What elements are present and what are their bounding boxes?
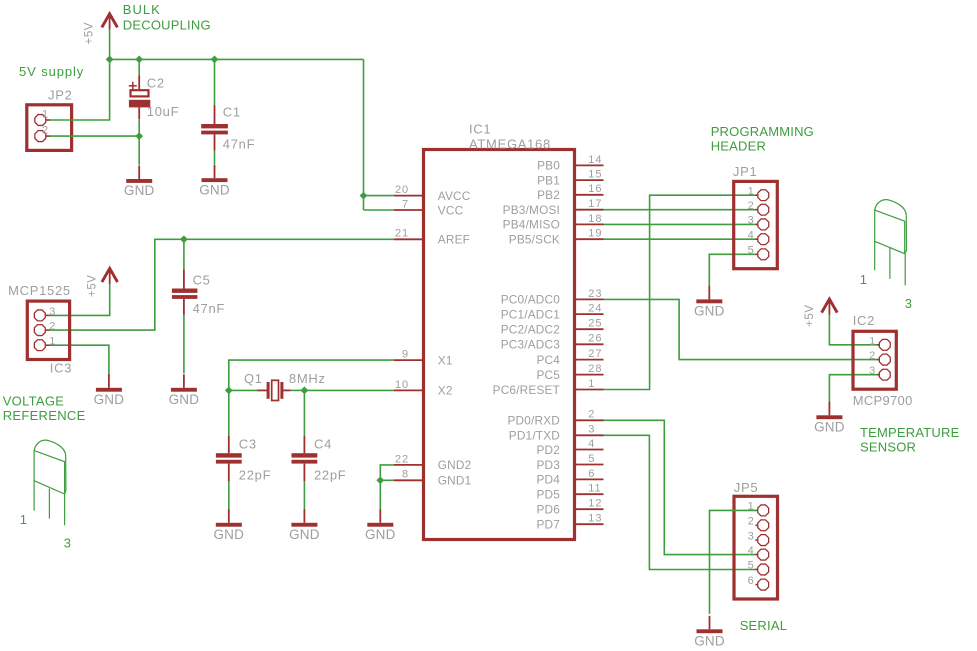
svg-text:ATMEGA168: ATMEGA168	[469, 136, 551, 151]
wire JP2-1 to bus	[50, 59, 110, 120]
svg-text:2: 2	[42, 124, 49, 136]
svg-text:MCP9700: MCP9700	[853, 393, 913, 408]
pin PD7 (13)	[575, 523, 604, 525]
svg-text:2: 2	[49, 321, 56, 333]
svg-text:3: 3	[588, 424, 595, 436]
svg-text:PB2: PB2	[537, 188, 560, 202]
pin PD5 (11)	[575, 493, 604, 495]
pin PD6 (12)	[575, 508, 604, 510]
svg-text:GND: GND	[199, 182, 230, 197]
svg-text:Q1: Q1	[244, 371, 263, 386]
wire crystal right	[291, 389, 305, 391]
svg-text:9: 9	[402, 349, 409, 361]
power symbol +5V (top)	[102, 14, 118, 28]
svg-text:21: 21	[395, 228, 409, 240]
svg-text:GND: GND	[213, 527, 244, 542]
ground GND (C1)	[214, 165, 216, 179]
svg-text:PB1: PB1	[537, 173, 560, 187]
svg-text:GND: GND	[289, 527, 320, 542]
wire +5V arrow to 5V bus	[109, 29, 111, 59]
svg-text:2: 2	[588, 409, 595, 421]
wire to AVCC pin	[364, 195, 395, 197]
svg-text:22: 22	[395, 453, 409, 465]
svg-text:47nF: 47nF	[223, 136, 255, 151]
pin PD0/RXD (2)	[575, 419, 604, 421]
svg-text:22pF: 22pF	[239, 467, 271, 482]
svg-text:14: 14	[588, 154, 602, 166]
svg-text:24: 24	[588, 303, 602, 315]
svg-text:PB4/MISO: PB4/MISO	[503, 218, 560, 232]
power symbol +5V (IC3)	[102, 268, 118, 282]
connector JP5	[734, 496, 778, 599]
junction at C1	[211, 56, 219, 64]
svg-text:C4: C4	[314, 436, 332, 451]
pin PD4 (6)	[575, 478, 604, 480]
pin PD1/TXD (3)	[575, 434, 604, 436]
svg-text:23: 23	[588, 288, 602, 300]
svg-text:4: 4	[588, 438, 595, 450]
svg-text:17: 17	[588, 198, 602, 210]
wire GND1 branch	[380, 479, 394, 481]
pin PC2/ADC2 (25)	[575, 328, 604, 330]
svg-text:16: 16	[588, 183, 602, 195]
svg-text:GND: GND	[365, 527, 396, 542]
svg-text:HEADER: HEADER	[711, 138, 766, 153]
pin X2 (10)	[394, 389, 424, 391]
capacitor C4	[303, 390, 305, 435]
pin PD3 (5)	[575, 464, 604, 466]
svg-text:X1: X1	[438, 353, 453, 367]
svg-text:20: 20	[395, 184, 409, 196]
svg-text:18: 18	[588, 213, 602, 225]
svg-text:GND1: GND1	[438, 474, 472, 488]
svg-text:PD0/RXD: PD0/RXD	[507, 414, 560, 428]
wire PC6/RESET to JP1-1	[604, 195, 758, 389]
svg-text:2: 2	[748, 516, 755, 528]
pin PC1/ADC1 (24)	[575, 313, 604, 315]
svg-text:X2: X2	[438, 384, 453, 398]
svg-text:VOLTAGE: VOLTAGE	[3, 393, 65, 408]
svg-text:1: 1	[20, 512, 28, 527]
svg-text:PD7: PD7	[536, 518, 560, 532]
svg-text:PC4: PC4	[536, 353, 560, 367]
IC IC1 ATMEGA168 body	[424, 150, 575, 540]
svg-text:19: 19	[588, 228, 602, 240]
wire PD0/RXD to JP5-4	[604, 420, 758, 554]
junction at +5V arrow	[106, 56, 114, 64]
wire crystal left	[229, 389, 257, 391]
pin GND2 (22)	[394, 464, 424, 466]
wire PB3/MOSI to JP1-2	[604, 209, 758, 211]
svg-text:JP2: JP2	[48, 88, 73, 103]
svg-text:6: 6	[588, 468, 595, 480]
svg-text:1: 1	[49, 336, 56, 348]
pin VCC (7)	[394, 209, 424, 211]
svg-text:PROGRAMMING: PROGRAMMING	[711, 124, 814, 139]
pin PC4 (27)	[575, 359, 604, 361]
capacitor C1	[214, 59, 216, 105]
junction crystal left / C3	[225, 387, 233, 395]
pin PB2 (16)	[575, 194, 604, 196]
wire IC2-3 to ground	[829, 375, 879, 404]
TO-92 package (temperature sensor)	[875, 200, 907, 286]
svg-text:47nF: 47nF	[193, 301, 225, 316]
junction C2/JP2-2	[135, 132, 143, 140]
svg-text:C3: C3	[239, 436, 257, 451]
pin PB4/MISO (18)	[575, 223, 604, 225]
svg-text:C2: C2	[147, 76, 165, 91]
svg-text:PD3: PD3	[536, 458, 560, 472]
pin PB3/MOSI (17)	[575, 209, 604, 211]
svg-text:C1: C1	[223, 105, 241, 120]
ground GND (C3)	[228, 509, 230, 523]
TO-92 package (voltage reference)	[34, 440, 66, 525]
svg-text:2: 2	[748, 200, 755, 212]
svg-text:4: 4	[748, 229, 755, 241]
svg-text:5V supply: 5V supply	[19, 64, 84, 79]
junction crystal right / C4	[301, 387, 309, 395]
svg-text:IC3: IC3	[50, 361, 72, 376]
svg-text:15: 15	[588, 169, 602, 181]
pin PD2 (4)	[575, 449, 604, 451]
svg-text:PC5: PC5	[536, 368, 560, 382]
svg-text:26: 26	[588, 333, 602, 345]
svg-text:22pF: 22pF	[314, 467, 346, 482]
pin AREF (21)	[394, 238, 424, 240]
wire to VCC pin	[364, 209, 395, 211]
svg-text:GND: GND	[694, 304, 725, 319]
ground GND (C2)	[138, 166, 140, 180]
pin PB0 (14)	[575, 164, 604, 166]
ground GND (IC3)	[108, 374, 110, 388]
svg-text:3: 3	[748, 530, 755, 542]
wire +5V to IC3 pin 3	[50, 284, 110, 316]
wire X1 net	[229, 360, 394, 390]
pin PC0/ADC0 (23)	[575, 298, 604, 300]
wire AREF net	[50, 239, 395, 330]
svg-text:PC0/ADC0: PC0/ADC0	[501, 293, 561, 307]
power symbol +5V (IC2)	[822, 299, 838, 313]
svg-text:+5V: +5V	[86, 274, 98, 297]
svg-text:3: 3	[905, 296, 913, 311]
svg-text:PB0: PB0	[537, 159, 560, 173]
pin PC5 (28)	[575, 374, 604, 376]
pin PC3/ADC3 (26)	[575, 343, 604, 345]
svg-text:3: 3	[49, 306, 56, 318]
svg-text:3: 3	[748, 215, 755, 227]
svg-text:GND: GND	[814, 420, 845, 435]
wire X2 net	[304, 389, 394, 391]
svg-text:1: 1	[860, 272, 868, 287]
svg-text:MCP1525: MCP1525	[8, 283, 71, 298]
svg-text:12: 12	[588, 498, 602, 510]
svg-text:PD6: PD6	[536, 503, 560, 517]
svg-text:VCC: VCC	[438, 203, 464, 217]
wire PD1/TXD to JP5-5	[604, 435, 758, 569]
connector JP2	[27, 105, 72, 151]
ground GND (C4)	[303, 509, 305, 523]
ground GND (IC2)	[828, 402, 830, 416]
ground GND (IC1)	[379, 509, 381, 523]
svg-text:5: 5	[748, 245, 755, 257]
svg-text:2: 2	[869, 350, 876, 362]
wire GND2 to ground	[380, 465, 394, 510]
svg-text:1: 1	[748, 185, 755, 197]
svg-text:7: 7	[402, 198, 409, 210]
pin PB1 (15)	[575, 179, 604, 181]
svg-text:5: 5	[748, 560, 755, 572]
svg-text:GND2: GND2	[438, 458, 472, 472]
pin X1 (9)	[394, 359, 424, 361]
wire 5V bus horizontal	[110, 58, 364, 60]
svg-text:BULK: BULK	[123, 2, 161, 17]
svg-text:C5: C5	[193, 273, 211, 288]
pin PC6/RESET (1)	[575, 389, 604, 391]
svg-text:PC1/ADC1: PC1/ADC1	[501, 307, 560, 321]
wire 5V bus drop to VCC	[363, 59, 365, 210]
svg-text:11: 11	[588, 483, 601, 495]
connector IC3 MCP1525	[27, 301, 69, 359]
svg-text:27: 27	[588, 348, 602, 360]
svg-text:+5V: +5V	[84, 22, 96, 45]
capacitor C2	[138, 59, 140, 75]
svg-text:SENSOR: SENSOR	[860, 440, 916, 455]
connector IC2	[853, 331, 896, 389]
svg-text:IC2: IC2	[853, 313, 875, 328]
wire JP2-2 to ground net	[50, 135, 139, 137]
svg-text:1: 1	[42, 108, 49, 120]
svg-text:PB3/MOSI: PB3/MOSI	[503, 203, 560, 217]
svg-text:3: 3	[869, 365, 876, 377]
svg-text:PD4: PD4	[536, 473, 560, 487]
svg-text:SERIAL: SERIAL	[740, 618, 787, 633]
svg-text:25: 25	[588, 318, 602, 330]
svg-text:GND: GND	[94, 392, 125, 407]
junction GND1/GND2	[376, 476, 384, 484]
svg-text:GND: GND	[169, 392, 200, 407]
svg-text:PD1/TXD: PD1/TXD	[509, 429, 560, 443]
svg-text:28: 28	[588, 363, 602, 375]
wire IC3 pin 1 to ground	[50, 345, 109, 376]
crystal Q1	[257, 389, 267, 391]
wire JP5-1 to ground	[710, 510, 758, 614]
svg-text:AREF: AREF	[438, 233, 470, 247]
svg-text:6: 6	[748, 575, 755, 587]
svg-text:1: 1	[588, 378, 595, 390]
pin GND1 (8)	[394, 479, 424, 481]
wire JP1-5 to ground	[709, 254, 757, 286]
svg-text:AVCC: AVCC	[438, 189, 471, 203]
connector JP1	[734, 181, 778, 268]
ground GND (C5)	[183, 374, 185, 388]
svg-text:13: 13	[588, 513, 602, 525]
svg-text:PD2: PD2	[536, 443, 560, 457]
svg-text:8: 8	[402, 469, 409, 481]
svg-text:PC2/ADC2: PC2/ADC2	[501, 323, 560, 337]
svg-text:8MHz: 8MHz	[289, 371, 326, 386]
pin AVCC (20)	[394, 195, 424, 197]
svg-text:PC6/RESET: PC6/RESET	[493, 383, 560, 397]
svg-text:PD5: PD5	[536, 488, 560, 502]
junction at C2	[135, 56, 143, 64]
wire PB5/SCK to JP1-4	[604, 238, 758, 240]
svg-text:GND: GND	[694, 634, 725, 649]
svg-text:JP5: JP5	[734, 480, 759, 495]
wire +5V to IC2-1	[829, 314, 879, 344]
capacitor C5	[183, 239, 185, 269]
svg-text:TEMPERATURE: TEMPERATURE	[860, 425, 960, 440]
svg-text:JP1: JP1	[733, 164, 758, 179]
svg-text:1: 1	[869, 335, 876, 347]
svg-text:4: 4	[748, 545, 755, 557]
svg-text:REFERENCE: REFERENCE	[3, 408, 86, 423]
svg-text:10: 10	[395, 379, 409, 391]
svg-text:10uF: 10uF	[147, 104, 179, 119]
ground GND (JP5)	[709, 616, 711, 630]
capacitor C3	[228, 390, 230, 435]
ground GND (JP1)	[708, 286, 710, 300]
junction at C5	[180, 235, 188, 243]
svg-text:GND: GND	[124, 183, 155, 198]
svg-text:IC1: IC1	[469, 122, 491, 137]
svg-text:DECOUPLING: DECOUPLING	[123, 17, 211, 32]
junction at AVCC branch	[360, 192, 368, 200]
pin PB5/SCK (19)	[575, 238, 604, 240]
wire PB4/MISO to JP1-3	[604, 223, 758, 225]
svg-text:PB5/SCK: PB5/SCK	[509, 233, 560, 247]
svg-text:PC3/ADC3: PC3/ADC3	[501, 338, 561, 352]
svg-text:3: 3	[64, 535, 72, 550]
svg-text:+5V: +5V	[804, 304, 816, 327]
svg-text:5: 5	[588, 453, 595, 465]
wire PC0/ADC0 to IC2-2	[604, 299, 880, 359]
